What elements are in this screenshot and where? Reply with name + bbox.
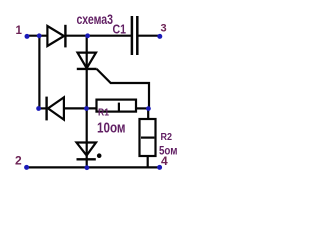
svg-text:C1: C1 [113,22,127,37]
junction: left diode / left rail [36,106,41,111]
svg-text:1: 1 [16,25,23,37]
svg-text:10ом: 10ом [97,120,126,137]
node 3 terminal dot [157,34,162,39]
wire: left vertical rail [38,36,40,109]
svg-text:схема3: схема3 [77,11,114,27]
wire: R1 right lead to junction [136,107,149,109]
wire: node1 to diode anode (top row) [27,35,48,37]
svg-text:R1: R1 [98,107,109,119]
resistor R1 [97,100,137,112]
thyristor VS1 (upper) [77,53,97,69]
junction: R1 / gate / R2 [146,106,151,111]
junction: center rail / bottom rail [85,165,90,170]
wire: C1 right plate to node 3 [138,35,160,37]
node 1 terminal dot [25,34,30,39]
wire: R2 bottom lead [147,156,149,167]
wire: center vertical rail [86,36,88,168]
junction: center rail / R1 row [84,106,89,111]
VS2 gate terminal dot (black) [97,153,102,158]
thyristor VS2 (lower) [77,143,97,160]
svg-text:2: 2 [15,154,22,168]
capacitor C1 [132,16,137,55]
wire: bottom rail node2 to node4 [27,166,160,168]
svg-text:3: 3 [161,23,167,35]
svg-text:R2: R2 [161,131,173,143]
wire: junction to R2 top [147,108,149,119]
wire: left junction to left diode cathode [39,107,47,109]
wire: VS1 gate to R1/R2 junction [97,69,149,109]
wire: diode cathode to C1 left plate [66,35,132,37]
junction: top row / center rail [85,33,90,38]
svg-text:5ом: 5ом [159,144,178,158]
diode VD-left (pointing left) [47,97,64,121]
resistor R2 [140,119,156,156]
node 4 terminal dot [157,165,162,170]
diode VD-top (pointing right) [47,25,65,48]
junction: top row / left rail [37,33,42,38]
wire: left diode anode to R1 [64,107,97,109]
node 2 terminal dot [24,165,29,170]
